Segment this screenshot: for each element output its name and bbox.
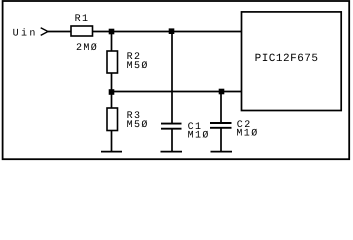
wire mid rail to PIC (112, 91, 242, 93)
wire top rail Uin to PIC (48, 31, 241, 33)
junction mid rail / C2 branch (219, 89, 225, 95)
svg-text:M5Ø: M5Ø (127, 61, 149, 72)
svg-text:M1Ø: M1Ø (236, 129, 258, 140)
junction top rail / R2 branch (109, 29, 115, 35)
node Uin input chevron (41, 28, 48, 36)
svg-text:M1Ø: M1Ø (188, 130, 210, 141)
resistor R3 (107, 108, 118, 131)
border frame (3, 1, 350, 159)
IC U1 PIC12F675 box (242, 12, 342, 111)
svg-text:2MØ: 2MØ (76, 43, 98, 54)
wire C1 branch upper (171, 32, 173, 124)
junction top rail / C1 branch (169, 28, 175, 34)
wire C1 branch lower (171, 129, 173, 152)
wire C2 branch lower (220, 128, 222, 152)
wire C2 branch upper (220, 92, 222, 124)
svg-text:R1: R1 (75, 14, 90, 25)
resistor R1 (71, 26, 93, 36)
capacitor C2 (210, 122, 232, 124)
svg-text:Uin: Uin (13, 27, 38, 39)
svg-text:M5Ø: M5Ø (127, 120, 149, 131)
wire vertical divider branch (111, 32, 113, 152)
resistor R2 (107, 51, 118, 73)
svg-text:PIC12F675: PIC12F675 (255, 53, 319, 65)
ground R3 (101, 151, 122, 153)
capacitor C1 (161, 123, 182, 125)
ground C1 (161, 151, 183, 153)
junction mid rail / R2-R3 (109, 89, 115, 95)
ground C2 (211, 151, 233, 153)
